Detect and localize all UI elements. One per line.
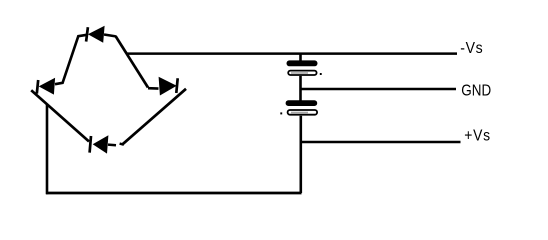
capacitor C1 bottom plate bbox=[288, 71, 316, 75]
capacitor C1 top plate bbox=[287, 60, 318, 66]
capacitor C2 bottom plate bbox=[288, 110, 318, 115]
wire cap bus upper segment bbox=[299, 53, 302, 62]
capacitor C2 top plate bbox=[286, 100, 318, 106]
wire top-left leg bbox=[55, 35, 87, 84]
wire left vertical bbox=[46, 105, 49, 195]
capacitor C1 plate smudge bbox=[291, 72, 308, 74]
capacitor C1 polarity dot bbox=[320, 73, 322, 75]
wire bottom return bbox=[46, 192, 302, 195]
wire cap bus lower segment bbox=[299, 116, 302, 193]
wire GND rail bbox=[301, 88, 456, 91]
wire lower-left diagonal bbox=[31, 90, 89, 141]
wire lower-right diagonal bbox=[123, 89, 187, 145]
diode D3 bottom (points left) bbox=[90, 135, 124, 153]
wire cap bus middle segment bbox=[299, 76, 302, 101]
diode D1 top (points left) bbox=[86, 26, 116, 43]
svg-text:GND: GND bbox=[461, 83, 491, 100]
diode D2 left (points left) bbox=[37, 78, 55, 95]
diode D4 right (points right) bbox=[148, 77, 178, 96]
wire +Vs rail bbox=[301, 141, 461, 144]
svg-text:-Vs: -Vs bbox=[460, 39, 483, 57]
wire upper-right diagonal bbox=[116, 36, 149, 88]
capacitor C2 plate smudge bbox=[291, 112, 308, 114]
svg-text:+Vs: +Vs bbox=[464, 127, 491, 145]
wire -Vs rail bbox=[127, 52, 457, 55]
capacitor C2 polarity dot bbox=[280, 112, 282, 114]
